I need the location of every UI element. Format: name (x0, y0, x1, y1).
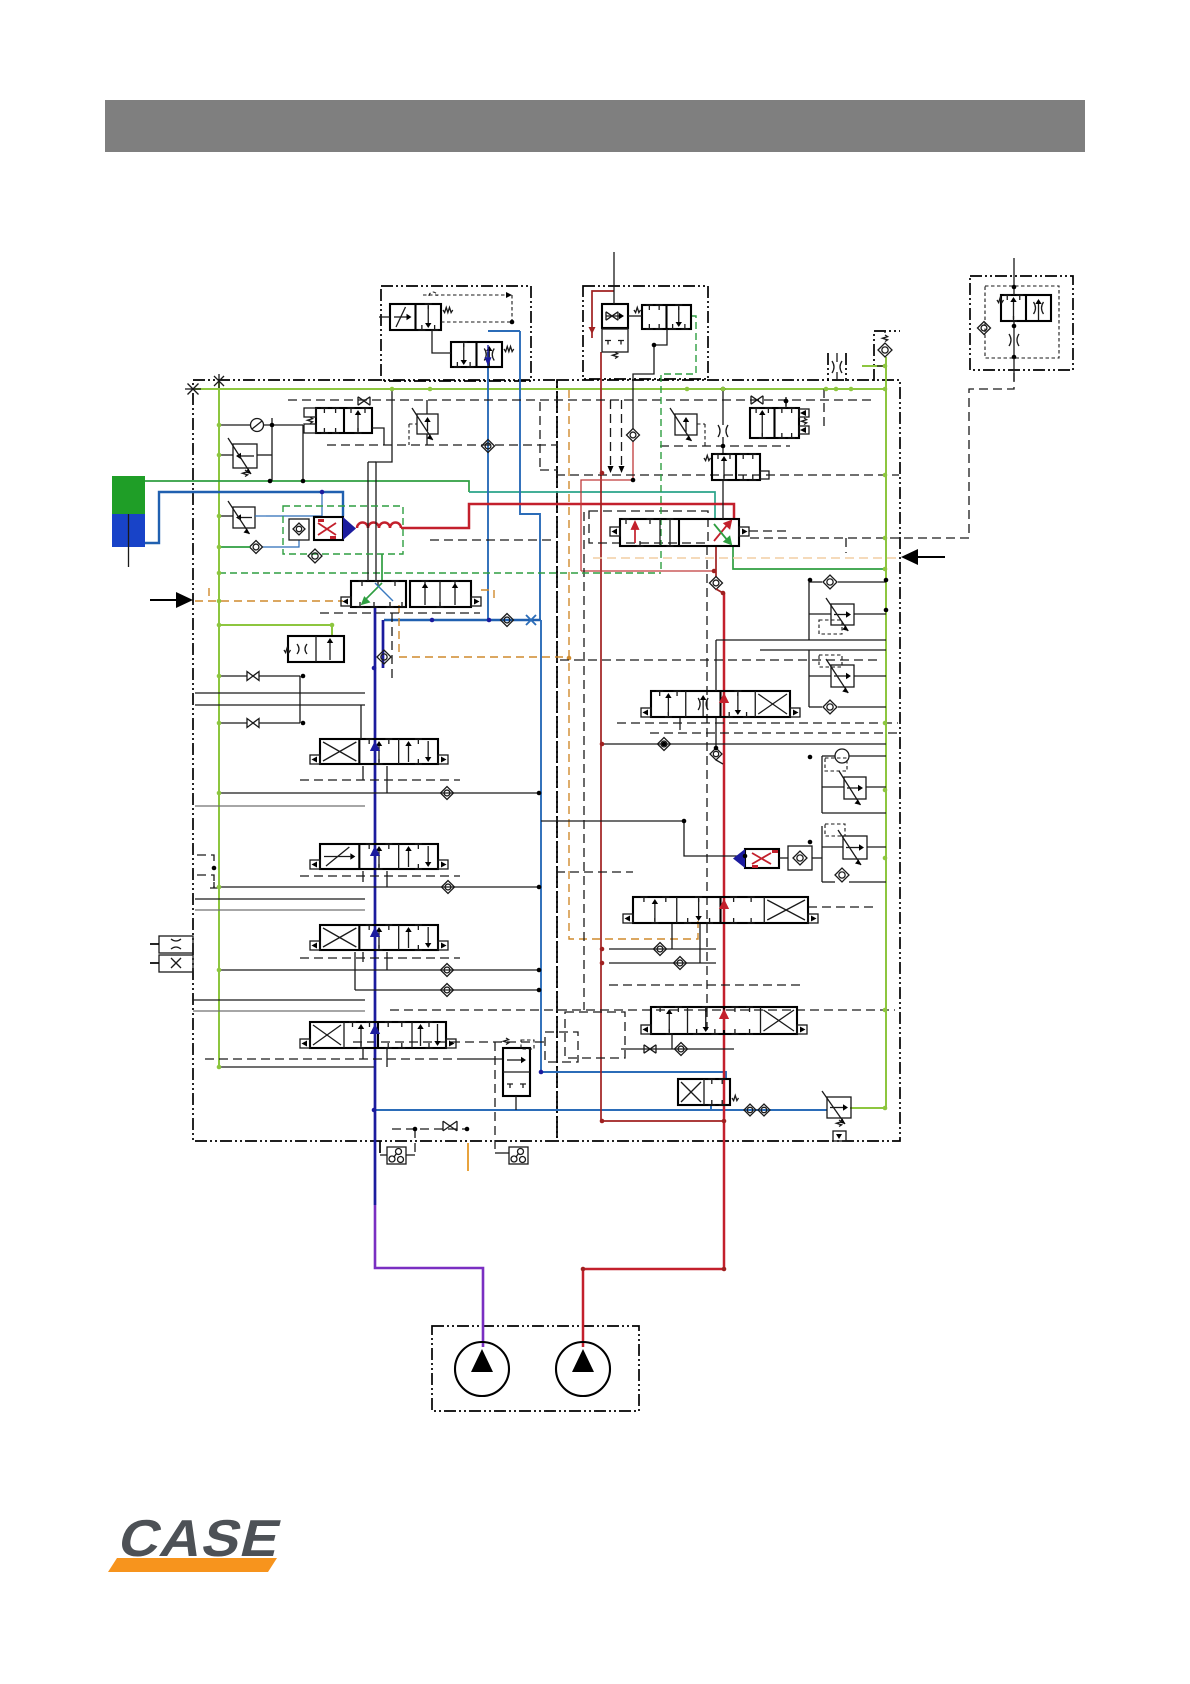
work row L4 (219, 1066, 374, 1068)
pilot dash vert gear2 (494, 1042, 496, 1153)
wire red main feed (401, 504, 734, 528)
plug X on blue manifold (526, 615, 536, 625)
pilot dash R2 left (556, 871, 633, 873)
spool valve L2 (320, 844, 438, 869)
junctions red (721, 591, 726, 596)
pilot dash top rail (288, 399, 873, 401)
wire orange swing drain (399, 605, 569, 657)
work row V5 feed (460, 1058, 503, 1060)
wire blue from indicator (145, 492, 343, 543)
wire red travel jog (716, 589, 723, 593)
pilot dash under R2 (609, 984, 800, 986)
relief valve RL3 (233, 507, 255, 528)
pilot dash swing vert (391, 613, 393, 680)
shutoff valve 1 (247, 672, 259, 681)
pilot dash L4 rail (353, 1041, 545, 1043)
check valve on A-column (482, 440, 495, 453)
swing valve pilots (341, 597, 351, 606)
wire dark-red boxB exit (592, 291, 614, 338)
line check c1 (219, 424, 250, 426)
pilot dash swing base (320, 612, 480, 614)
pilot dash vert b (621, 400, 623, 466)
work row R3 (621, 1048, 734, 1050)
relief valve G3 (844, 777, 866, 799)
box-check right (788, 846, 812, 870)
green dash boxB drop (661, 316, 696, 573)
relief valve RL1 (417, 414, 438, 434)
boxB links (654, 329, 667, 345)
junctions lt-green left (217, 423, 222, 428)
wire lt-green main header (195, 388, 886, 390)
work row L3b (355, 989, 539, 991)
check g3 (835, 749, 849, 763)
pilot dash compensator rail (660, 445, 790, 447)
plug X top (214, 376, 224, 386)
check valve on tank line 1 (744, 1104, 756, 1116)
wire blue right standpipe (541, 620, 726, 1079)
pump1 triangle (471, 1349, 493, 1372)
wire blue xvalve drop (710, 1105, 712, 1110)
wire orange stub (208, 588, 210, 601)
swing valve right body (410, 581, 471, 607)
row line upper pair 1 (195, 692, 365, 694)
relief RL3 links (219, 515, 233, 517)
relief valve G1 (831, 604, 854, 625)
boxC dashed box (985, 286, 1059, 358)
wire navy aux riser (382, 620, 385, 668)
CASE logo swoosh (108, 1558, 277, 1572)
spool R3 port stubs (671, 1034, 673, 1049)
wire blue check link (262, 540, 299, 547)
valve L0 (316, 408, 372, 433)
spool valve L4 (310, 1022, 446, 1048)
wire red pilot loop (581, 441, 633, 571)
pilot dash R2 right (808, 906, 877, 908)
work port dash L3 (300, 957, 460, 959)
pilot dash left rail 445 (327, 444, 556, 446)
work row L3a (219, 969, 539, 971)
check valve on blue manifold (501, 614, 514, 627)
restrictor box bars (827, 353, 829, 381)
pilot dash arm rail b (650, 732, 898, 734)
junctions black (537, 791, 542, 796)
wire green boom supply (145, 481, 469, 492)
check valve pilot loop (627, 429, 640, 442)
pilot box B (583, 286, 708, 379)
work port dash L2 (300, 875, 460, 877)
link to shuttle (541, 821, 745, 856)
relief G3 links (822, 755, 835, 757)
valve B2 (642, 305, 691, 329)
boxC check (978, 322, 991, 335)
check valve on tank line 2 (758, 1104, 770, 1116)
blue arrows in spools (372, 743, 379, 760)
blue arrow in A2 (486, 345, 491, 364)
spool L2 port stubs (362, 871, 364, 882)
wire teal to travel valve (469, 492, 715, 519)
spool L4 port stubs (362, 1049, 364, 1059)
link A1-A2 (432, 330, 451, 353)
gear symbol 2 (509, 1147, 528, 1164)
wire lt-green swing branch (219, 625, 332, 637)
gear symbol 1 (387, 1147, 406, 1164)
wire lt-green left standpipe (218, 381, 220, 1067)
wire blue A-column right (520, 331, 540, 620)
wire green travel return (733, 546, 886, 569)
wire lt-green relief link (850, 1107, 886, 1109)
spool L3 port stubs (362, 952, 364, 962)
orange stub right pilot (481, 590, 494, 601)
pilot dash bottom rail (390, 1009, 895, 1011)
title bar (105, 100, 1085, 152)
pilot dash drain rail (392, 1128, 467, 1130)
wire dark-red standpipe (601, 352, 724, 1121)
spool valve R1 (651, 691, 790, 717)
shuttle cartridge (314, 517, 343, 540)
relief RL2 links (219, 454, 233, 456)
green dash shuttle box (283, 506, 403, 554)
spool valve L1 (320, 739, 438, 764)
restrictor above L0 (358, 397, 370, 405)
pilot dash left low rail (205, 1058, 460, 1060)
wire lt-green notch stub (862, 365, 886, 367)
travel valve body (620, 519, 739, 546)
relief G2 links (760, 649, 886, 651)
accessory box C (970, 276, 1073, 370)
work row R2b (609, 962, 716, 964)
valve V5 (503, 1048, 530, 1096)
pilot dash accessory tick (845, 538, 847, 553)
spool R2 port stubs (671, 923, 673, 949)
pilot dash vert a (610, 400, 612, 466)
spool valve R3 (651, 1007, 797, 1034)
pilot dash vert R0 pilot (823, 389, 825, 431)
valve C1 (1001, 295, 1051, 321)
spool L1 port stubs (362, 766, 364, 780)
pump1 circle (455, 1342, 509, 1396)
check g2 (823, 700, 837, 714)
work link R1b (715, 717, 717, 748)
relief valve RD (827, 1097, 851, 1118)
shutoff links (219, 675, 247, 677)
indicator stem line (128, 514, 130, 567)
plug X left (188, 384, 199, 395)
travel valve red port arrow (632, 522, 638, 543)
wire navy main riser (374, 607, 377, 1205)
check valve c1 (251, 419, 264, 432)
check g4 (835, 868, 849, 882)
junctions blue (320, 490, 325, 495)
swing valve green arrow (362, 583, 382, 604)
dashed boxes near R3 (565, 1012, 625, 1058)
wire red swing coil (357, 523, 401, 529)
valve A2 (451, 342, 502, 367)
work row R2a (609, 948, 716, 950)
relief RD link (850, 1107, 852, 1109)
wire red pump2 riser (583, 593, 724, 1347)
wire peach pilot rail (593, 557, 898, 559)
pilot dash arm rail (617, 722, 898, 724)
xvalve (678, 1079, 730, 1105)
relief G1 links (809, 581, 822, 583)
check valve c2 (250, 541, 263, 554)
wire orange standpipe (569, 390, 698, 939)
check g1 (823, 575, 837, 589)
frame notch box (874, 331, 900, 381)
valve A1 (390, 304, 441, 330)
work row L1 (219, 792, 539, 794)
relief valve G4 (843, 836, 867, 859)
pump unit box (432, 1326, 639, 1411)
pilot dash vert gear1 (414, 1129, 416, 1153)
left edge dash marks (197, 855, 214, 868)
shuttle box-check (289, 519, 309, 540)
swing valve blue line (375, 583, 393, 601)
wire green swing feed (381, 554, 383, 581)
junction orange (567, 656, 572, 661)
work row L2 (219, 886, 539, 888)
cushion valve (288, 636, 344, 662)
row line upper pair 2 (195, 704, 365, 706)
main frame left section (193, 380, 557, 1141)
wire purple pump1 suction (375, 1205, 483, 1347)
wire blue A-column left (487, 352, 489, 620)
boxA dash pilots (423, 294, 506, 296)
wire red pilot lateral (581, 570, 716, 572)
pilot dash vert d (706, 546, 708, 1030)
work port dash L1 (300, 779, 460, 781)
wire orange swing pilot left (195, 600, 343, 602)
vert link x272 (271, 418, 273, 481)
pilot dash vert R0 feed (785, 397, 787, 408)
boxB stub (613, 252, 615, 304)
travel valve pilots (610, 527, 620, 536)
shutoff valve 2 (247, 719, 259, 728)
port box 2 (159, 955, 193, 972)
pilot dash low rail (560, 659, 882, 661)
spool valve R2 (633, 897, 808, 923)
spool R1 port stubs (679, 718, 681, 730)
indicator blue box (112, 514, 145, 547)
relief G4 links (821, 826, 823, 882)
red arrows in spools (721, 695, 728, 714)
wire lt-green right standpipe (885, 357, 887, 1108)
relief valve G2 (831, 665, 854, 687)
valve R0 (750, 408, 799, 438)
wire orange solid drain stub (467, 1143, 469, 1171)
wire red travel drop (715, 546, 717, 577)
line check c2 (219, 546, 250, 548)
wire blue relief pilot (266, 492, 322, 516)
row line y640 (716, 639, 886, 641)
pilot dash accessory rail (750, 370, 1014, 538)
pilot dash mid box (539, 402, 541, 470)
restrictor on drain rail (443, 1121, 457, 1131)
pilot dash vert c (583, 512, 585, 1010)
relief RL1 links (409, 423, 417, 425)
flow arrow right (916, 556, 945, 558)
wire blue A-bridge (488, 330, 520, 332)
port box 1 (159, 936, 193, 953)
valve R0pp (712, 454, 760, 480)
work row R1 (602, 743, 886, 745)
work feed left (391, 390, 393, 445)
notch check (882, 335, 887, 342)
junctions lt-green right (428, 387, 433, 392)
flow arrow left (150, 599, 178, 601)
pump2 triangle (572, 1349, 594, 1372)
swing top stubs (367, 556, 369, 581)
valve B1 restrictor (602, 304, 628, 328)
wire blue tank line (374, 1109, 827, 1111)
spool valve L3 (320, 925, 438, 950)
pilot dash travel box (589, 511, 708, 543)
compensator CP (675, 414, 697, 435)
check navy (377, 650, 391, 664)
travel valve green arrow (714, 524, 731, 544)
pump2 circle (556, 1342, 610, 1396)
pilot box A (381, 286, 531, 381)
indicator green box (112, 476, 145, 514)
check below shuttle (308, 549, 322, 563)
main frame right section (557, 380, 900, 1141)
restrictor r1 (718, 425, 720, 437)
shuttle right links (779, 857, 788, 859)
pilot dash mid rail (556, 474, 899, 476)
red arrow boxB (589, 327, 596, 334)
travel valve red arrow (714, 521, 731, 541)
swing valve left body (351, 581, 406, 607)
relief valve RL2 (233, 444, 257, 468)
wire black pilot upper (633, 345, 654, 429)
shuttle cartridge right (745, 849, 779, 868)
wire blue manifold (384, 619, 541, 621)
check valve travel drop (710, 577, 723, 590)
restrictor X r2 (751, 396, 763, 404)
boxC spine (1013, 258, 1015, 295)
green dash lower rail (219, 572, 661, 574)
